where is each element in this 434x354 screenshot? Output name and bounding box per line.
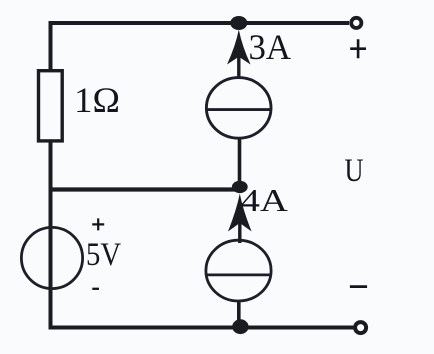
wire top rail from left corner to + terminal [51,23,350,71]
label - polarity of 5V [92,288,99,290]
wire between 3A source and node [238,138,242,184]
resistor 1Ω [39,71,63,141]
svg-text:1Ω: 1Ω [74,80,120,120]
node top junction [230,16,247,30]
node middle junction [232,181,248,193]
svg-text:3A: 3A [249,27,292,67]
svg-text:4A: 4A [241,182,289,218]
wire bottom rail to - terminal [49,326,355,330]
terminal + (top right open circle) [351,18,361,28]
current source 3A [206,30,271,139]
current source 4A [206,194,271,328]
wire left branch below resistor [49,142,53,330]
node bottom junction [232,319,248,334]
label + polarity of 5V [92,218,104,230]
svg-text:U: U [345,153,364,189]
wire middle horizontal to node [49,187,241,191]
voltage source 5V [21,227,82,288]
label + output polarity [350,39,366,58]
svg-text:5V: 5V [86,237,121,273]
terminal - (bottom right open circle) [355,322,366,333]
label - output polarity [350,285,367,288]
